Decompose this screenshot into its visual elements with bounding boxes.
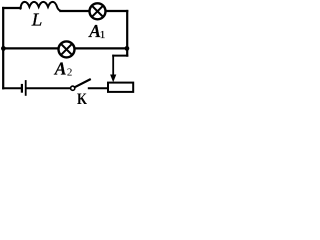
svg-text:K: K — [77, 91, 87, 106]
wire battery to switch — [26, 87, 70, 89]
svg-text:2: 2 — [67, 66, 73, 78]
svg-text:L: L — [31, 10, 43, 30]
junction right — [125, 46, 130, 51]
svg-text:A: A — [54, 58, 67, 78]
wire middle row right — [75, 47, 127, 49]
junction left — [1, 46, 6, 51]
wire lamp A1 to right corner — [106, 10, 127, 12]
resistor box R — [108, 83, 133, 92]
lamp A1 circle — [90, 3, 106, 19]
wire coil to lamp A1 — [60, 10, 89, 12]
rheostat arrowhead — [110, 75, 116, 83]
battery long plate — [25, 81, 27, 95]
wire jog to rheostat arrow — [113, 55, 127, 57]
svg-text:1: 1 — [100, 29, 106, 41]
switch K lever — [75, 80, 90, 88]
lamp A2 cross — [61, 44, 71, 54]
switch K hinge — [71, 86, 75, 90]
wire right vertical — [126, 11, 128, 56]
lamp A2 circle — [59, 41, 75, 57]
wire bottom-left to battery — [3, 87, 21, 89]
wire middle row left — [3, 47, 58, 49]
wire switch to resistor box — [89, 87, 108, 89]
battery short plate — [21, 85, 23, 92]
inductor L — [20, 2, 60, 11]
lamp A1 cross — [92, 6, 102, 16]
rheostat arrow shaft — [112, 56, 114, 75]
wire left vertical — [2, 8, 4, 88]
wire top-left horizontal — [3, 7, 20, 9]
